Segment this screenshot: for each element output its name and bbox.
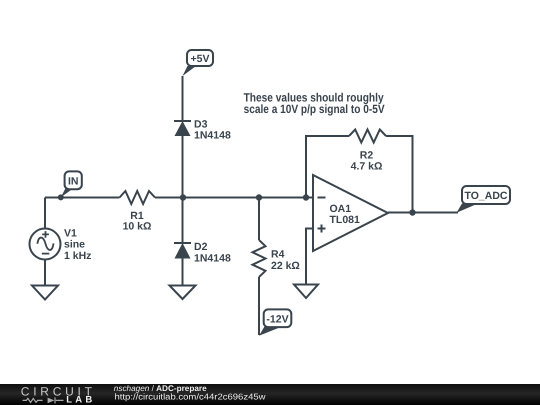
svg-text:1N4148: 1N4148 xyxy=(194,253,231,265)
svg-text:R2: R2 xyxy=(360,149,374,161)
svg-text:R4: R4 xyxy=(271,249,285,261)
svg-text:+5V: +5V xyxy=(191,53,210,65)
svg-text:scale a 10V p/p signal to 0-5V: scale a 10V p/p signal to 0-5V xyxy=(244,102,385,116)
svg-text:http://circuitlab.com/c44r2c69: http://circuitlab.com/c44r2c696z45w xyxy=(115,391,267,401)
svg-text:IN: IN xyxy=(68,175,79,187)
svg-text:1N4148: 1N4148 xyxy=(194,130,231,142)
svg-text:V1: V1 xyxy=(64,227,77,239)
svg-text:22 kΩ: 22 kΩ xyxy=(271,260,300,272)
svg-text:LAB: LAB xyxy=(66,395,95,405)
svg-text:D2: D2 xyxy=(194,241,208,253)
svg-text:TO_ADC: TO_ADC xyxy=(465,190,508,202)
svg-text:1 kHz: 1 kHz xyxy=(64,250,91,262)
svg-text:TL081: TL081 xyxy=(330,214,361,226)
svg-text:-12V: -12V xyxy=(266,313,288,325)
svg-text:10 kΩ: 10 kΩ xyxy=(123,220,152,232)
svg-text:4.7 kΩ: 4.7 kΩ xyxy=(351,161,383,173)
